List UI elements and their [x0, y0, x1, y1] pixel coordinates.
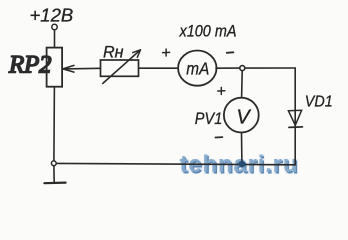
svg-text:V: V — [236, 106, 251, 128]
bottom rail wire — [56, 163, 295, 164]
voltmeter PV1 body — [224, 98, 259, 133]
potentiometer RP2 body — [47, 48, 63, 87]
svg-text:PV1: PV1 — [195, 109, 223, 128]
wire VD1 branch vertical — [294, 68, 296, 165]
svg-text:VD1: VD1 — [305, 94, 333, 111]
wire terminal to RP2 — [54, 30, 56, 48]
wire RP2 to node B — [53, 87, 56, 161]
ground — [44, 182, 65, 185]
watermark tehnari.ru — [180, 151, 300, 179]
node C (PV1 to bottom rail junction) — [239, 161, 246, 168]
RP2 wiper arrow — [64, 67, 101, 70]
polarity + (PV1 top) — [218, 87, 225, 94]
wire PV1 to bottom rail — [241, 133, 243, 163]
wire node A to VD1 branch — [245, 67, 295, 69]
Rн diagonal arrow — [103, 50, 140, 83]
milliammeter PA1 body — [178, 51, 216, 86]
diode VD1 — [288, 110, 301, 125]
wire node A to PV1 — [241, 71, 244, 98]
polarity − (mA right) — [227, 51, 234, 54]
wire Rн to mA meter — [139, 67, 178, 69]
svg-text:Rн: Rн — [103, 42, 124, 61]
terminal +12V — [52, 24, 57, 29]
node B — [51, 161, 56, 166]
polarity + (mA left) — [163, 49, 170, 56]
node A — [240, 66, 245, 71]
wire mA to node A — [216, 67, 240, 69]
polarity − (PV1 bottom) — [215, 136, 222, 138]
rheostat Rн body — [101, 60, 139, 76]
svg-text:+12В: +12В — [30, 5, 74, 26]
svg-text:RP2: RP2 — [8, 52, 52, 79]
svg-text:mA: mA — [186, 59, 209, 79]
svg-text:x100 mA: x100 mA — [179, 22, 237, 41]
ground stub — [53, 166, 55, 183]
